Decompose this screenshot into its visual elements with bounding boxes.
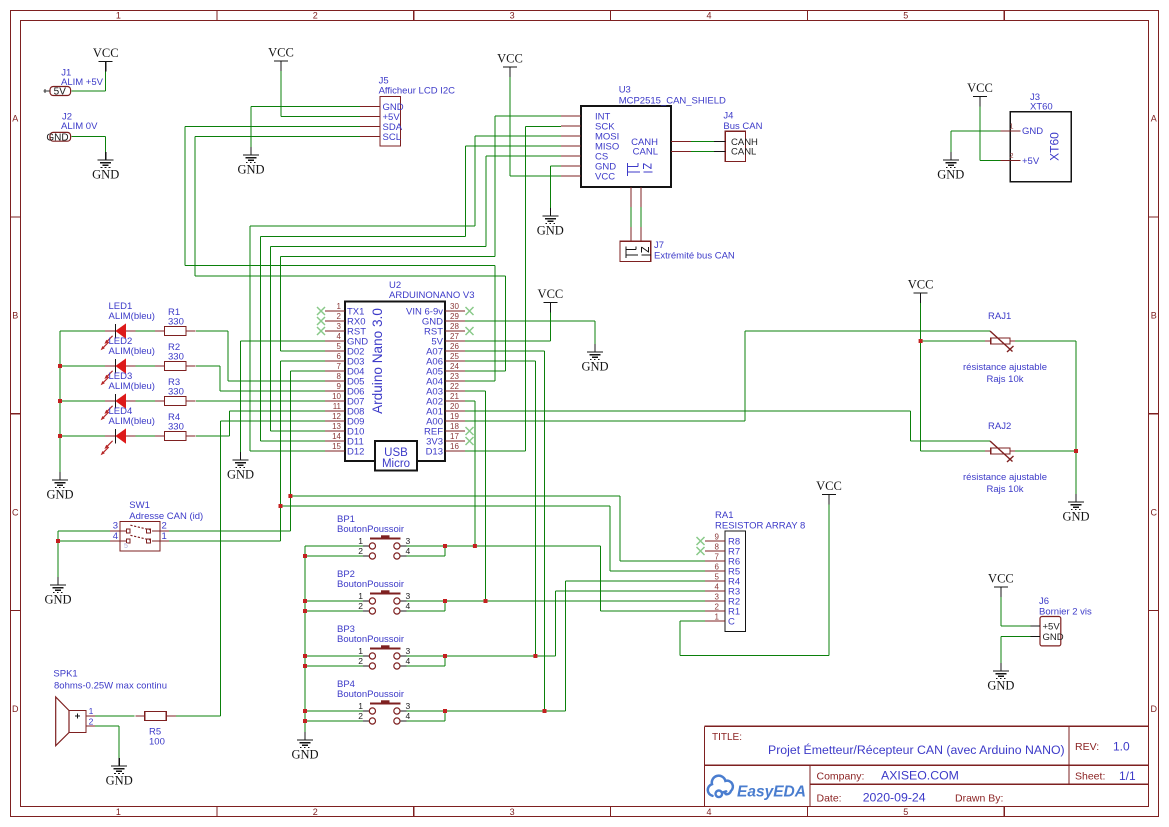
svg-text:GND: GND	[92, 168, 119, 182]
junction D04	[288, 494, 292, 498]
wire BP1 left1	[305, 545, 363, 547]
wire RAJ1 right to ground rail	[1015, 341, 1076, 451]
junction BP4 A07	[543, 709, 547, 713]
svg-text:Extrémité bus CAN: Extrémité bus CAN	[654, 251, 735, 262]
svg-text:A: A	[1151, 114, 1157, 124]
svg-text:CANL: CANL	[633, 147, 658, 158]
svg-text:3: 3	[406, 701, 411, 711]
junction BP3 A06	[533, 654, 537, 658]
svg-text:résistance ajustable: résistance ajustable	[963, 472, 1047, 483]
svg-text:8: 8	[337, 372, 342, 381]
svg-text:EasyEDA: EasyEDA	[737, 784, 806, 801]
wire RAJ2 right to ground rail	[1015, 451, 1076, 494]
svg-text:12: 12	[332, 412, 341, 421]
svg-text:D: D	[1151, 704, 1158, 714]
junction BP2 a	[443, 599, 447, 603]
junction BP bus 5	[303, 664, 307, 668]
wire BP2 left1	[305, 600, 363, 602]
wire BP1 right	[407, 546, 706, 611]
power flag VCC (J3)	[967, 81, 993, 110]
wire U3 CANL to J4	[691, 150, 714, 152]
ground (J6)	[987, 663, 1014, 693]
resistor R2	[155, 342, 196, 371]
svg-text:8ohms-0.25W max continu: 8ohms-0.25W max continu	[54, 680, 167, 691]
ground (J5)	[237, 147, 264, 177]
wire net SCK to D13	[465, 127, 561, 452]
wire net MOSI to D12	[250, 136, 561, 451]
junction BP bus 1	[303, 554, 307, 558]
svg-text:4: 4	[406, 601, 411, 611]
connector J2	[46, 112, 98, 144]
potentiometer RAJ2	[963, 421, 1047, 495]
svg-text:D12: D12	[347, 446, 364, 457]
svg-text:2: 2	[1009, 151, 1013, 160]
wire LED4 to bus	[60, 435, 105, 437]
connector J3 XT60	[1000, 92, 1071, 182]
svg-text:2: 2	[313, 10, 318, 20]
svg-text:GND: GND	[44, 593, 71, 607]
svg-text:Projet Émetteur/Récepteur CAN: Projet Émetteur/Récepteur CAN (avec Ardu…	[768, 742, 1065, 757]
svg-text:17: 17	[450, 432, 459, 441]
wire net SCL	[195, 137, 506, 372]
svg-text:5: 5	[903, 807, 908, 817]
resistor R4	[155, 412, 196, 441]
svg-text:7: 7	[337, 362, 342, 371]
svg-text:J7: J7	[654, 240, 664, 251]
wire net A00 to RAJ1	[465, 331, 990, 421]
wire net INT to D02	[281, 116, 562, 351]
ground (U2 pin4)	[227, 452, 254, 482]
svg-text:11: 11	[333, 402, 342, 411]
wire SW1 pin3 to ground bus	[58, 531, 110, 577]
svg-text:2: 2	[89, 716, 94, 726]
wire BP2 short 3-4	[407, 601, 446, 611]
svg-text:3: 3	[510, 10, 515, 20]
resistor R5	[135, 711, 176, 747]
svg-text:3: 3	[406, 646, 411, 656]
power flag VCC (J1)	[93, 46, 119, 72]
svg-text:1: 1	[358, 646, 363, 656]
junction BP3 a	[443, 654, 447, 658]
svg-text:Sheet:: Sheet:	[1075, 770, 1105, 782]
svg-text:B: B	[1151, 311, 1157, 321]
wire VCC rail to RAJ1 left	[921, 340, 985, 342]
wire SW1 pin4 to ground bus	[58, 540, 110, 542]
wire BP4 left2	[305, 720, 363, 722]
ground (SW1)	[44, 577, 71, 607]
svg-text:VCC: VCC	[967, 81, 993, 95]
wire BP3 left2	[305, 665, 363, 667]
wire BP3 left1	[305, 655, 363, 657]
wire J2 to ground	[72, 137, 106, 152]
svg-text:SW1: SW1	[129, 500, 150, 511]
svg-text:26: 26	[450, 342, 459, 351]
resistor R1	[155, 307, 196, 336]
svg-text:VCC: VCC	[538, 287, 564, 301]
junction BP bus 7	[303, 719, 307, 723]
svg-text:GND: GND	[46, 488, 73, 502]
svg-text:4: 4	[406, 546, 411, 556]
LED LED4	[101, 406, 155, 455]
wire VCC to J6 +5V	[1001, 597, 1031, 626]
wire net D03	[169, 361, 325, 541]
junction BP bus 6	[303, 709, 307, 713]
svg-text:ALIM 0V: ALIM 0V	[61, 121, 98, 132]
svg-text:+5V: +5V	[1022, 156, 1040, 167]
svg-text:GND: GND	[237, 163, 264, 177]
svg-text:330: 330	[168, 352, 184, 363]
svg-text:GND: GND	[937, 168, 964, 182]
wire net SDA	[185, 127, 495, 382]
svg-text:AXISEO.COM: AXISEO.COM	[881, 769, 959, 783]
svg-text:2: 2	[358, 656, 363, 666]
svg-text:C: C	[1151, 507, 1158, 517]
IC U3 MCP2515_CAN_SHIELD	[561, 85, 726, 208]
power flag VCC (RAJ)	[908, 278, 934, 304]
svg-text:GND: GND	[227, 468, 254, 482]
svg-text:2: 2	[313, 807, 318, 817]
svg-text:2: 2	[337, 312, 342, 321]
svg-text:28: 28	[450, 322, 459, 331]
wire LED1 to R1	[136, 330, 156, 332]
wire VCC to U3 VCC pin	[510, 77, 561, 176]
svg-text:CANL: CANL	[731, 147, 756, 158]
svg-text:XT60: XT60	[1048, 132, 1062, 161]
junction BP1 A02	[473, 544, 477, 548]
svg-text:25: 25	[450, 352, 459, 361]
svg-text:3: 3	[337, 322, 342, 331]
junction LED bus a	[58, 364, 62, 368]
svg-text:Rajs 10k: Rajs 10k	[987, 484, 1024, 495]
svg-text:RESISTOR ARRAY 8: RESISTOR ARRAY 8	[715, 521, 805, 532]
svg-text:1: 1	[358, 701, 363, 711]
title block	[705, 726, 1149, 806]
svg-text:VCC: VCC	[595, 171, 615, 182]
wire U3 CANH to J4	[691, 141, 714, 143]
svg-text:D13: D13	[426, 446, 443, 457]
speaker SPK1	[53, 669, 167, 746]
wire LED2 to R2	[136, 365, 156, 367]
wire BP4 right to RA1 R4	[407, 581, 706, 711]
wire button ground bus	[304, 546, 306, 732]
wire net D04 branch to RA1 R7	[290, 496, 705, 561]
svg-text:6: 6	[337, 352, 342, 361]
ground (U2 pin29)	[581, 344, 608, 374]
svg-text:1: 1	[1009, 122, 1013, 131]
svg-text:Company:: Company:	[817, 771, 865, 783]
svg-text:1.0: 1.0	[1113, 740, 1130, 754]
svg-text:4: 4	[706, 807, 711, 817]
power flag VCC (U2 5V)	[538, 287, 564, 313]
svg-text:ALIM(bleu): ALIM(bleu)	[109, 416, 155, 427]
svg-text:10: 10	[332, 392, 341, 401]
junction LED bus c	[58, 434, 62, 438]
svg-text:14: 14	[332, 432, 341, 441]
svg-text:5: 5	[337, 342, 342, 351]
svg-text:BoutonPoussoir: BoutonPoussoir	[337, 689, 404, 700]
svg-text:REV:: REV:	[1075, 741, 1099, 753]
potentiometer RAJ1	[963, 311, 1047, 385]
wire J1 to VCC	[72, 72, 106, 92]
svg-text:5: 5	[124, 543, 128, 550]
wire LED4 to R4	[136, 435, 156, 437]
svg-text:1: 1	[162, 531, 167, 542]
svg-text:ALIM(bleu): ALIM(bleu)	[109, 311, 155, 322]
svg-text:9: 9	[715, 533, 720, 542]
junction RAJ ground rail	[1074, 449, 1078, 453]
wire SPK1 pin1 to R5	[95, 715, 135, 717]
svg-text:330: 330	[168, 317, 184, 328]
svg-text:A: A	[12, 114, 18, 124]
svg-text:GND: GND	[1022, 126, 1043, 137]
svg-text:100: 100	[149, 737, 165, 748]
wire net A02	[465, 401, 475, 546]
ground (J3)	[937, 152, 964, 182]
svg-text:VCC: VCC	[988, 572, 1014, 586]
svg-text:15: 15	[332, 442, 341, 451]
wire net A03	[465, 391, 486, 601]
wire BP3 right to RA1 R3	[407, 591, 706, 656]
wire net A07	[465, 351, 545, 711]
power flag VCC (J6)	[988, 572, 1014, 598]
button BP4	[337, 679, 411, 724]
wire J5 GND to ground	[251, 107, 360, 148]
svg-text:3: 3	[406, 536, 411, 546]
junction VCC RAJ1	[919, 339, 923, 343]
svg-text:VCC: VCC	[497, 52, 523, 66]
junction BP bus 2	[303, 599, 307, 603]
wire J3 GND to ground	[951, 131, 1001, 152]
svg-text:330: 330	[168, 422, 184, 433]
svg-text:VCC: VCC	[93, 46, 119, 60]
svg-text:5: 5	[903, 10, 908, 20]
svg-text:Bornier 2 vis: Bornier 2 vis	[1039, 606, 1092, 617]
svg-text:GND: GND	[581, 360, 608, 374]
svg-text:1/1: 1/1	[1119, 769, 1136, 783]
svg-text:GND: GND	[537, 224, 564, 238]
svg-text:1: 1	[715, 613, 720, 622]
wire U2 GND4 to ground	[241, 341, 326, 452]
junction BP4 a	[443, 709, 447, 713]
svg-text:4: 4	[706, 10, 711, 20]
wire R2 to D06	[196, 366, 325, 391]
wire J6 GND to ground	[1001, 637, 1031, 663]
wire U3 pin to J7 b	[640, 207, 642, 227]
junction BP bus 3	[303, 609, 307, 613]
svg-text:1: 1	[358, 591, 363, 601]
wire RA1 C to VCC	[680, 505, 829, 656]
wire U3 pin to J7	[630, 207, 632, 227]
svg-text:BoutonPoussoir: BoutonPoussoir	[337, 579, 404, 590]
svg-text:MCP2515_CAN_SHIELD: MCP2515_CAN_SHIELD	[619, 96, 726, 107]
svg-text:D: D	[12, 704, 19, 714]
wire R1 to D05	[196, 331, 325, 381]
ground (RAJ)	[1062, 494, 1089, 524]
svg-text:B: B	[12, 311, 18, 321]
wire net MISO to D11	[261, 146, 562, 441]
svg-text:27: 27	[450, 332, 459, 341]
wire LED bus vertical	[59, 331, 61, 472]
junction BP2 A03	[484, 599, 488, 603]
wire net D09 to R5	[175, 421, 325, 716]
svg-text:19: 19	[450, 412, 459, 421]
button BP3	[337, 624, 411, 669]
svg-text:1: 1	[358, 536, 363, 546]
connector J7 Extremite bus CAN	[620, 227, 735, 262]
wire LED cathode bus	[60, 330, 105, 332]
wire LED2 to bus	[60, 365, 105, 367]
wire R3 to D07	[196, 400, 325, 402]
svg-text:1: 1	[89, 706, 94, 716]
svg-text:4: 4	[113, 531, 118, 542]
svg-text:1: 1	[116, 10, 121, 20]
svg-text:U3: U3	[619, 85, 631, 96]
svg-text:4: 4	[337, 332, 342, 341]
connector J1	[44, 68, 104, 98]
svg-text:SPK1: SPK1	[53, 669, 77, 680]
wire net A01 to RAJ2	[465, 411, 990, 441]
svg-text:VCC: VCC	[908, 278, 934, 292]
ground (J2)	[92, 152, 119, 182]
svg-text:Date:: Date:	[817, 792, 842, 804]
svg-text:5: 5	[715, 573, 720, 582]
svg-text:3: 3	[406, 591, 411, 601]
svg-text:BoutonPoussoir: BoutonPoussoir	[337, 524, 404, 535]
wire U3 GND pin to ground	[550, 166, 561, 208]
ground (SPK1)	[106, 758, 133, 788]
wire VCC to J5 +5V	[281, 71, 360, 117]
svg-text:3: 3	[510, 807, 515, 817]
svg-text:GND: GND	[106, 774, 133, 788]
svg-text:RAJ2: RAJ2	[988, 421, 1011, 432]
wire LED3 to bus	[60, 400, 105, 402]
svg-text:Arduino Nano 3.0: Arduino Nano 3.0	[370, 308, 385, 414]
svg-text:SCL: SCL	[383, 132, 401, 143]
svg-text:ALIM +5V: ALIM +5V	[61, 77, 104, 88]
svg-text:ALIM(bleu): ALIM(bleu)	[109, 381, 155, 392]
svg-text:BoutonPoussoir: BoutonPoussoir	[337, 634, 404, 645]
button BP2	[337, 569, 411, 614]
svg-text:8: 8	[715, 543, 720, 552]
svg-text:GND: GND	[1062, 510, 1089, 524]
wire BP1 left2	[305, 555, 363, 557]
power flag VCC (U3)	[497, 52, 523, 78]
svg-text:résistance ajustable: résistance ajustable	[963, 362, 1047, 373]
svg-text:4: 4	[406, 711, 411, 721]
svg-text:2020-09-24: 2020-09-24	[863, 791, 926, 805]
wire VCC rail to RAJ	[921, 303, 985, 451]
svg-text:4: 4	[715, 583, 720, 592]
svg-text:GND: GND	[1043, 632, 1064, 643]
wire BP1 short 3-4	[407, 546, 446, 556]
ground (button bus)	[291, 732, 318, 762]
svg-text:C: C	[728, 616, 735, 627]
svg-text:24: 24	[450, 362, 459, 371]
IC U2 Arduino Nano 3.0	[317, 280, 475, 471]
IC RA1 resistor array 8	[697, 510, 806, 632]
svg-text:330: 330	[168, 387, 184, 398]
svg-text:3: 3	[715, 593, 720, 602]
svg-text:18: 18	[450, 422, 459, 431]
wire BP3 short 3-4	[407, 656, 446, 666]
ground (U3)	[537, 208, 564, 238]
junction BP1 a	[443, 544, 447, 548]
wire BP4 left1	[305, 710, 363, 712]
svg-text:RA1: RA1	[715, 510, 733, 521]
svg-text:6: 6	[715, 563, 720, 572]
svg-text:GND: GND	[291, 748, 318, 762]
ground (LED bus)	[46, 472, 73, 502]
svg-text:GND: GND	[46, 132, 68, 143]
LED LED1	[101, 301, 155, 350]
svg-text:ALIM(bleu): ALIM(bleu)	[109, 346, 155, 357]
svg-text:TITLE:: TITLE:	[712, 732, 742, 743]
svg-text:2: 2	[715, 603, 720, 612]
svg-text:Bus CAN: Bus CAN	[723, 121, 762, 132]
svg-text:7: 7	[715, 553, 720, 562]
svg-text:5V: 5V	[54, 87, 67, 98]
power flag VCC (RA1)	[816, 479, 842, 505]
svg-text:29: 29	[450, 312, 459, 321]
svg-text:VCC: VCC	[268, 46, 294, 60]
resistor R3	[155, 377, 196, 406]
button BP1	[337, 514, 411, 559]
wire BP2 right to RA1 R2	[407, 600, 706, 602]
connector J4 Bus CAN	[714, 111, 763, 162]
svg-text:ARDUINONANO V3: ARDUINONANO V3	[389, 290, 475, 301]
svg-text:1: 1	[337, 302, 342, 311]
EasyEDA logo	[708, 776, 806, 801]
wire R4 to D08	[196, 411, 325, 436]
wire SPK1 pin2 to ground	[95, 726, 119, 758]
LED LED2	[101, 336, 155, 385]
wire VCC to J3 +5V	[980, 110, 1000, 161]
wire LED3 to R3	[136, 400, 156, 402]
svg-text:J4: J4	[723, 111, 733, 122]
svg-text:16: 16	[450, 442, 459, 451]
wire VCC to U2 5V	[465, 313, 550, 342]
wire U2 GND29 to ground	[465, 321, 595, 344]
junction D03	[279, 504, 283, 508]
LED LED3	[101, 371, 155, 420]
switch SW1 Adresse CAN	[110, 500, 203, 551]
svg-text:C: C	[12, 507, 19, 517]
svg-text:2: 2	[358, 711, 363, 721]
svg-text:XT60: XT60	[1030, 101, 1053, 112]
wire net D04	[169, 371, 325, 531]
svg-text:2: 2	[358, 546, 363, 556]
svg-text:23: 23	[450, 372, 459, 381]
svg-text:Adresse CAN (id): Adresse CAN (id)	[129, 511, 203, 522]
svg-text:4: 4	[406, 656, 411, 666]
junction SW1 bus	[56, 539, 60, 543]
svg-text:20: 20	[450, 402, 459, 411]
svg-text:GND: GND	[987, 679, 1014, 693]
svg-text:RAJ1: RAJ1	[988, 311, 1011, 322]
svg-text:Afficheur LCD I2C: Afficheur LCD I2C	[379, 86, 456, 97]
junction BP bus 4	[303, 654, 307, 658]
wire BP2 left2	[305, 610, 363, 612]
svg-text:2: 2	[358, 601, 363, 611]
svg-text:Rajs 10k: Rajs 10k	[987, 374, 1024, 385]
svg-text:Drawn By:: Drawn By:	[955, 792, 1003, 804]
svg-text:13: 13	[332, 422, 341, 431]
junction LED bus b	[58, 399, 62, 403]
svg-text:Micro: Micro	[382, 458, 410, 470]
svg-text:9: 9	[337, 382, 342, 391]
svg-text:21: 21	[450, 392, 459, 401]
wire net A06	[465, 361, 535, 656]
